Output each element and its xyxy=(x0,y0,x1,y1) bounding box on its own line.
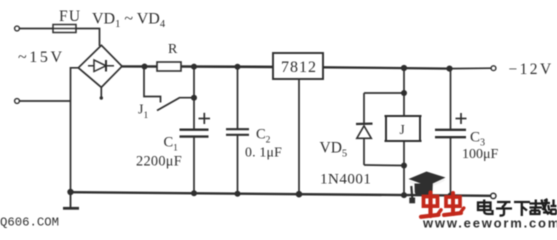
capacitor C2 xyxy=(226,129,249,135)
resistor R xyxy=(157,62,181,71)
relay contact J1 xyxy=(144,67,194,111)
svg-text:0. 1μF: 0. 1μF xyxy=(245,145,282,160)
wire xyxy=(237,67,239,130)
terminal output -12V xyxy=(491,66,496,71)
wire xyxy=(71,68,79,192)
wire xyxy=(20,28,54,30)
bridge rectifier VD1-VD4 xyxy=(78,45,122,87)
regulator 7812 xyxy=(273,53,323,79)
junction xyxy=(401,163,407,169)
junction xyxy=(235,191,241,197)
wire xyxy=(20,100,71,102)
wire xyxy=(193,67,195,130)
diode VD5 xyxy=(356,93,373,165)
junction xyxy=(296,191,303,198)
svg-text:2200μF: 2200μF xyxy=(136,154,182,170)
terminal AC input top xyxy=(15,26,20,31)
wire xyxy=(237,136,239,194)
junction xyxy=(401,192,407,198)
svg-text:7812: 7812 xyxy=(281,59,317,76)
svg-text:R: R xyxy=(168,42,178,57)
svg-text:FU: FU xyxy=(59,8,81,25)
wire xyxy=(364,164,404,167)
ground xyxy=(63,192,79,208)
fuse FU xyxy=(53,25,76,33)
watermark graduation cap xyxy=(409,172,446,204)
wire xyxy=(403,68,405,116)
wire xyxy=(403,141,405,195)
watermark dianzi xiazaizhan xyxy=(478,199,557,216)
svg-text:100μF: 100μF xyxy=(462,147,499,162)
svg-text:VD1 ~ VD4: VD1 ~ VD4 xyxy=(92,11,166,31)
wire main line xyxy=(122,65,157,67)
svg-text:1N4001: 1N4001 xyxy=(320,172,371,188)
junction xyxy=(67,189,73,195)
svg-text:C2: C2 xyxy=(256,127,271,146)
svg-text:www.eeworm.com: www.eeworm.com xyxy=(422,216,557,231)
wire xyxy=(450,67,492,69)
junction xyxy=(446,66,452,72)
svg-text:Q606.COM: Q606.COM xyxy=(0,216,59,230)
svg-text:C3: C3 xyxy=(470,130,485,149)
wire main line output xyxy=(323,67,450,68)
wire xyxy=(450,138,452,196)
svg-text:−12V: −12V xyxy=(509,61,554,78)
junction xyxy=(191,95,197,101)
wire xyxy=(193,138,195,194)
wire main line xyxy=(181,65,273,68)
svg-text:J1: J1 xyxy=(138,103,148,122)
capacitor C1 xyxy=(180,113,211,137)
svg-text:C1: C1 xyxy=(164,135,179,154)
junction xyxy=(401,65,407,71)
wire xyxy=(364,92,404,94)
junction xyxy=(448,193,454,199)
capacitor C3 xyxy=(435,113,467,137)
svg-text:J: J xyxy=(400,122,405,137)
junction xyxy=(235,64,241,70)
wire xyxy=(450,69,452,130)
wire 7812 ground pin xyxy=(298,79,300,194)
svg-text:~15V: ~15V xyxy=(18,49,65,66)
junction xyxy=(142,64,148,70)
wire bridge minus stub xyxy=(100,87,103,99)
junction xyxy=(191,64,197,70)
terminal output bottom xyxy=(491,193,496,198)
junction xyxy=(191,190,197,196)
watermark chongchong red xyxy=(421,193,464,217)
junction xyxy=(401,90,407,96)
svg-text:VD5: VD5 xyxy=(320,140,348,160)
wire ground rail xyxy=(71,192,491,196)
wire xyxy=(76,29,100,47)
terminal AC input bottom xyxy=(15,99,20,104)
relay coil J xyxy=(385,116,422,141)
